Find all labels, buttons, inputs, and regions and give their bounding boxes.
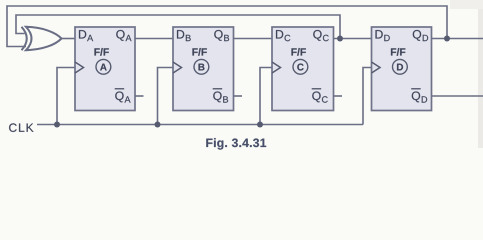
wire: outer feedback from QD node to XOR lower input: [7, 6, 447, 47]
wire: XOR output to DA input: [62, 38, 76, 40]
wire: QD-bar output to right edge: [432, 95, 483, 97]
flip-flop A (F/F): [75, 27, 135, 111]
wire: QA-bar stub: [135, 95, 144, 97]
wire: CLK riser to FF D clock pin: [363, 68, 372, 125]
flip-flop D (F/F): [372, 27, 432, 111]
wire: QA to DB: [135, 38, 173, 40]
junction: QC feedback node: [337, 36, 343, 42]
junction: CLK node at FF C: [257, 122, 263, 128]
junction: CLK node at FF B: [155, 122, 161, 128]
wire: CLK main line: [37, 124, 363, 126]
wire: inner feedback from QC node to XOR upper input: [16, 15, 340, 39]
wire: CLK riser to FF A clock pin: [57, 68, 75, 125]
wire: QC to DD: [334, 38, 372, 40]
wire: QB to DC: [234, 38, 273, 40]
net CLK label: [9, 123, 33, 132]
flip-flop C (F/F): [272, 27, 334, 111]
wire: CLK riser to FF B clock pin: [158, 68, 174, 125]
wire: CLK riser to FF C clock pin: [260, 68, 272, 125]
wire: QC-bar stub: [334, 95, 343, 97]
flip-flop B (F/F): [173, 27, 234, 111]
wire: QB-bar stub: [234, 95, 243, 97]
wire: QD output to right edge: [432, 38, 483, 40]
page background: [0, 0, 483, 158]
junction: CLK node at FF A: [54, 122, 60, 128]
xor gate U1: [22, 27, 62, 50]
junction: QD feedback node: [444, 36, 450, 42]
caption Fig. 3.4.31: [206, 138, 266, 149]
